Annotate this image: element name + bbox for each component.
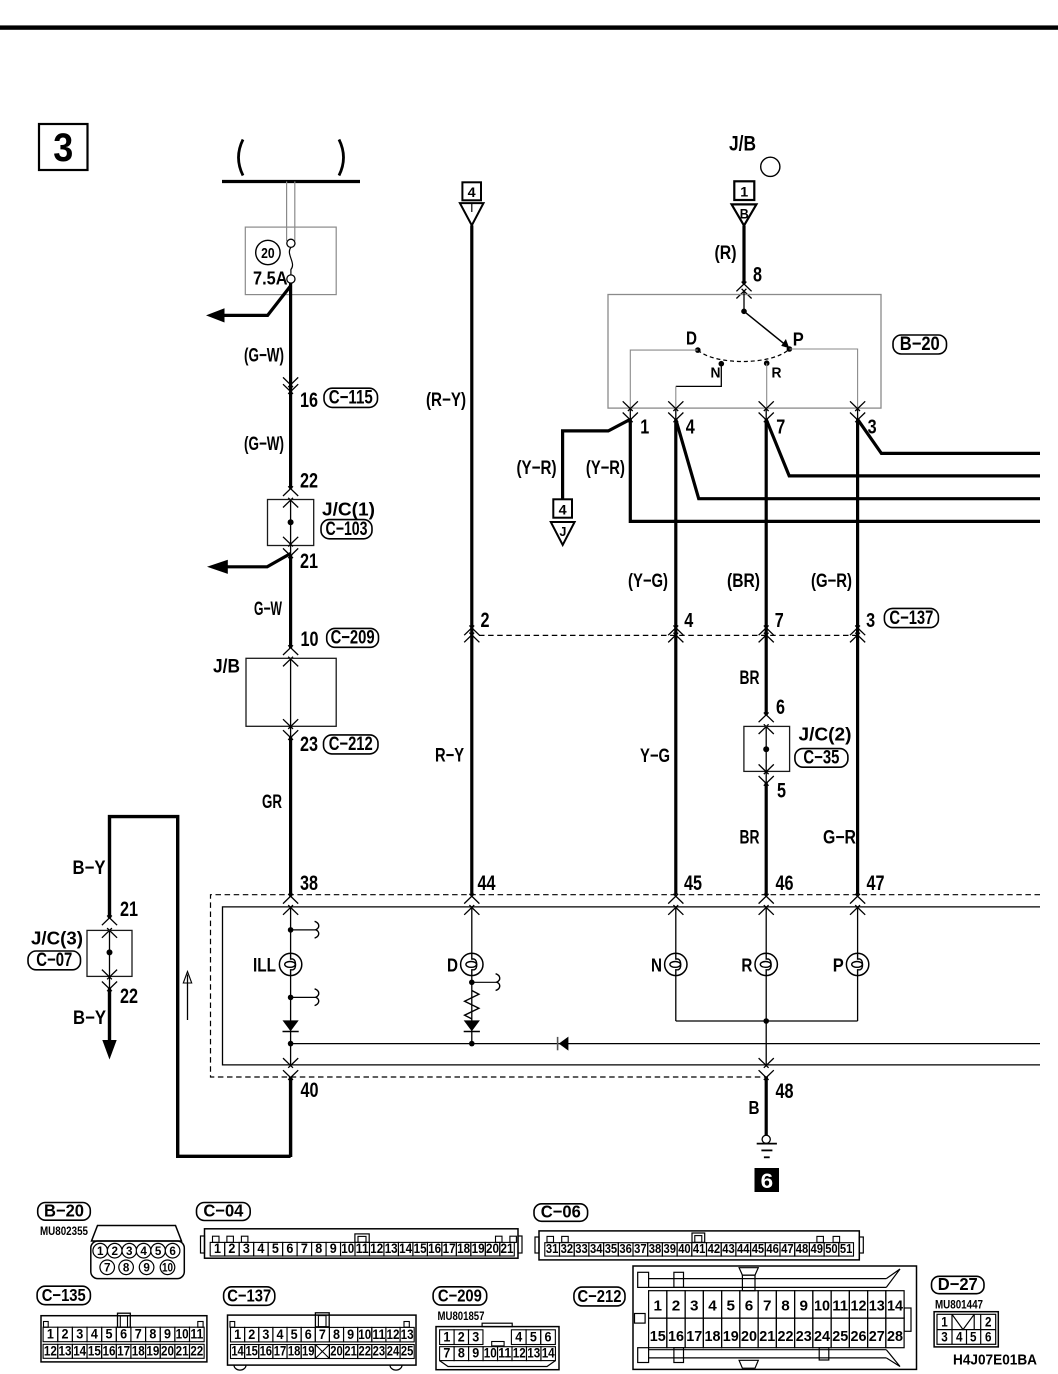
svg-text:23: 23 (796, 1328, 812, 1345)
junction connector J/C(1) box (268, 500, 314, 546)
svg-text:2: 2 (458, 1330, 465, 1345)
contact N dot (719, 361, 725, 367)
svg-text:10: 10 (484, 1346, 497, 1361)
wire BR from pin 7 (765, 419, 768, 715)
svg-text:1: 1 (234, 1327, 241, 1342)
svg-text:27: 27 (869, 1328, 885, 1345)
svg-text:8: 8 (333, 1327, 340, 1342)
page number 3 box (39, 124, 88, 170)
svg-text:4: 4 (684, 610, 694, 632)
svg-text:17: 17 (443, 1241, 456, 1256)
svg-text:6: 6 (545, 1330, 552, 1345)
svg-text:5: 5 (155, 1244, 162, 1258)
C-06 connector drawing (539, 1231, 859, 1260)
svg-text:7.5A: 7.5A (253, 268, 288, 289)
svg-text:25: 25 (832, 1328, 848, 1345)
svg-text:(Y−G): (Y−G) (628, 571, 668, 592)
svg-text:10: 10 (176, 1327, 189, 1342)
svg-text:14: 14 (887, 1298, 904, 1315)
cluster pin 45 entry chevrons (668, 894, 683, 904)
svg-text:17: 17 (274, 1344, 287, 1359)
svg-text:5: 5 (970, 1329, 977, 1344)
svg-text:H4J07E01BA: H4J07E01BA (953, 1352, 1037, 1369)
diode on common line (557, 1037, 559, 1050)
wire branch pin 3 to right (next page) (858, 419, 1040, 453)
svg-text:5: 5 (726, 1298, 735, 1315)
svg-text:21: 21 (120, 898, 138, 921)
ground symbol (762, 1135, 770, 1143)
wire B to ground (765, 1077, 768, 1135)
C-137 pin cells 14-25 with keyway (231, 1345, 245, 1359)
svg-text:17: 17 (117, 1343, 130, 1358)
C-212 bottom rails and tabs (649, 1349, 887, 1351)
ground wire from lamps (765, 1021, 767, 1065)
wire from pin 1 down and right (to next page) (630, 419, 1040, 521)
ILL upper tap dot and brace (288, 927, 294, 933)
wire from pin 40 down (289, 1077, 292, 1157)
svg-text:37: 37 (634, 1241, 647, 1256)
svg-text:ILL: ILL (253, 956, 276, 977)
svg-text:5: 5 (777, 780, 786, 803)
svg-text:20: 20 (330, 1344, 343, 1359)
svg-text:R: R (741, 955, 752, 976)
chevrons entering J/C(2) (759, 713, 774, 723)
svg-text:8: 8 (753, 264, 762, 287)
svg-text:28: 28 (887, 1328, 903, 1345)
svg-text:10: 10 (358, 1327, 371, 1342)
B-20 pin circles (93, 1243, 108, 1258)
svg-text:9: 9 (330, 1241, 337, 1256)
svg-text:3: 3 (126, 1244, 133, 1258)
svg-text:5: 5 (530, 1330, 537, 1345)
svg-text:5: 5 (272, 1241, 279, 1256)
D lamp (461, 953, 483, 975)
svg-text:3: 3 (690, 1298, 699, 1315)
wire through J/B (290, 659, 292, 737)
svg-text:16: 16 (300, 389, 318, 412)
connector label C-137 (inline) (884, 608, 938, 627)
svg-text:13: 13 (401, 1327, 414, 1342)
switch common dot (741, 309, 747, 315)
ILL diode (283, 1020, 299, 1031)
svg-text:1: 1 (443, 1330, 450, 1345)
svg-text:46: 46 (766, 1241, 779, 1256)
N-R-P common connector line (676, 1020, 858, 1022)
wire (R) down to B-20 (742, 226, 745, 284)
svg-text:B−20: B−20 (900, 334, 940, 355)
battery bus bar with parentheses (239, 140, 244, 176)
svg-text:21: 21 (344, 1344, 357, 1359)
svg-text:C−209: C−209 (331, 628, 375, 649)
svg-text:6: 6 (169, 1244, 176, 1258)
C-209 pin cells 7-14 (440, 1347, 454, 1361)
ground reference 6 (inverted) (755, 1168, 780, 1192)
cluster pin 44 entry chevrons (464, 894, 479, 904)
svg-text:1: 1 (941, 1315, 948, 1330)
contact D dot (695, 347, 701, 353)
svg-text:C−04: C−04 (203, 1201, 243, 1221)
svg-text:17: 17 (686, 1328, 702, 1345)
junction dot in J/C(2) (763, 746, 769, 752)
svg-text:13: 13 (869, 1298, 885, 1315)
svg-text:20: 20 (486, 1241, 499, 1256)
C-135 pin cells 1-11 (43, 1327, 58, 1342)
svg-text:4: 4 (956, 1329, 963, 1344)
C-137 pin 4 chevrons (668, 626, 683, 636)
cluster pin 46 entry chevrons (759, 894, 774, 904)
wire through J/C(1) (290, 500, 292, 555)
connector label D-27 (932, 1276, 985, 1293)
wire G-W to J/B (289, 555, 292, 648)
svg-text:12: 12 (513, 1346, 526, 1361)
B-20 connector face drawing (92, 1226, 182, 1242)
svg-text:7: 7 (104, 1260, 111, 1274)
svg-text:11: 11 (190, 1327, 203, 1342)
svg-text:42: 42 (708, 1241, 721, 1256)
svg-text:Y−G: Y−G (640, 746, 670, 767)
svg-text:48: 48 (796, 1241, 809, 1256)
svg-text:C−212: C−212 (329, 734, 373, 755)
internal line from D to pin 1 (630, 350, 698, 408)
svg-text:B: B (740, 207, 749, 222)
svg-text:19: 19 (723, 1328, 739, 1345)
svg-text:3: 3 (76, 1327, 83, 1342)
svg-text:45: 45 (752, 1241, 765, 1256)
svg-text:1: 1 (740, 184, 748, 200)
svg-text:2: 2 (111, 1244, 118, 1258)
svg-text:N: N (711, 366, 721, 382)
svg-text:8: 8 (458, 1346, 465, 1361)
svg-text:18: 18 (288, 1344, 301, 1359)
connector label C-135 (37, 1286, 90, 1305)
svg-text:8: 8 (781, 1298, 790, 1315)
internal line from R to pin 7 (766, 363, 768, 408)
svg-text:6: 6 (985, 1329, 992, 1344)
svg-text:C−103: C−103 (326, 519, 368, 540)
C-06 pin cells 31-51 (545, 1243, 560, 1256)
chevrons entering J/C(3) (102, 916, 117, 926)
C-212 top rails and tabs (649, 1278, 887, 1280)
chevrons entering J/B (C-209 pin 10) (283, 645, 298, 655)
cluster pin 40 exit chevrons (283, 1058, 298, 1068)
svg-text:4: 4 (708, 1298, 717, 1315)
C-137 pin 3 chevrons (850, 626, 865, 636)
svg-text:16: 16 (668, 1328, 684, 1345)
svg-text:C−212: C−212 (577, 1286, 621, 1306)
svg-text:6: 6 (120, 1327, 127, 1342)
svg-text:14: 14 (231, 1344, 244, 1359)
svg-text:21: 21 (176, 1343, 189, 1358)
connector label B-20 (893, 335, 947, 354)
svg-text:(R−Y): (R−Y) (426, 390, 466, 411)
inter-page connector 4 (top) box (462, 182, 481, 200)
svg-text:22: 22 (120, 985, 138, 1008)
svg-text:2: 2 (248, 1327, 255, 1342)
svg-text:14: 14 (73, 1343, 86, 1358)
svg-text:10: 10 (814, 1298, 830, 1315)
P lamp wire (857, 907, 859, 1021)
svg-text:2: 2 (672, 1298, 681, 1315)
svg-text:7: 7 (443, 1346, 450, 1361)
chevrons leaving J/B (C-212 pin 23) (283, 719, 298, 729)
ILL lamp wire (290, 907, 292, 1065)
svg-text:1: 1 (214, 1241, 221, 1256)
svg-text:2: 2 (228, 1241, 235, 1256)
svg-text:BR: BR (740, 828, 760, 849)
svg-text:22: 22 (300, 470, 318, 493)
C-212 connector drawing outer (633, 1266, 917, 1369)
wire branch pin 7 to right (next page) (766, 419, 1040, 476)
svg-text:16: 16 (260, 1344, 273, 1359)
svg-text:23: 23 (373, 1344, 386, 1359)
junction dot in J/C(3) (107, 949, 113, 955)
svg-text:24: 24 (387, 1344, 400, 1359)
D-27 connector drawing (934, 1312, 998, 1347)
svg-text:34: 34 (590, 1241, 603, 1256)
wire branch from pin 1 to connector 4/J (563, 419, 631, 499)
svg-text:6: 6 (286, 1241, 293, 1256)
svg-text:22: 22 (190, 1343, 203, 1358)
svg-text:C−07: C−07 (36, 950, 72, 971)
svg-text:2: 2 (985, 1315, 992, 1330)
svg-text:12: 12 (370, 1241, 383, 1256)
wire B-Y to arrow (108, 989, 111, 1043)
svg-text:9: 9 (164, 1327, 171, 1342)
svg-text:41: 41 (693, 1241, 706, 1256)
svg-text:11: 11 (356, 1241, 369, 1256)
svg-text:(Y−R): (Y−R) (517, 458, 557, 479)
connector label C-103 (321, 520, 372, 539)
C-137 connector drawing (228, 1315, 417, 1365)
C-135 pin cells 12-22 (43, 1344, 58, 1358)
N lamp wire (675, 907, 677, 1021)
svg-text:11: 11 (372, 1327, 385, 1342)
chevrons at C-137 crossing pin 2 (464, 626, 479, 636)
svg-text:5: 5 (291, 1327, 298, 1342)
svg-text:14: 14 (542, 1346, 555, 1361)
svg-text:MU802355: MU802355 (40, 1226, 89, 1238)
svg-text:39: 39 (664, 1241, 677, 1256)
contact P dot (787, 346, 793, 352)
svg-text:12: 12 (44, 1343, 57, 1358)
R lamp (755, 953, 777, 975)
chevrons entering J/C(1) (283, 486, 298, 496)
svg-text:7: 7 (319, 1327, 326, 1342)
connector label B-20 (bottom) (38, 1203, 91, 1221)
flow direction arrow (up) (187, 975, 189, 1021)
svg-text:2: 2 (62, 1327, 69, 1342)
svg-text:31: 31 (546, 1241, 559, 1256)
svg-text:12: 12 (850, 1298, 866, 1315)
ILL output junction dot (288, 1041, 294, 1047)
svg-text:22: 22 (777, 1328, 793, 1345)
svg-text:9: 9 (799, 1298, 808, 1315)
svg-text:25: 25 (401, 1344, 414, 1359)
svg-text:47: 47 (781, 1241, 794, 1256)
svg-text:38: 38 (300, 872, 318, 895)
svg-text:(G−W): (G−W) (244, 346, 284, 367)
svg-text:J/B: J/B (213, 657, 240, 678)
svg-text:9: 9 (472, 1346, 479, 1361)
svg-text:4: 4 (559, 501, 567, 517)
svg-text:1: 1 (97, 1244, 104, 1258)
wire G-R from pin 3 (856, 419, 859, 894)
svg-text:(Y−R): (Y−R) (586, 458, 625, 479)
svg-text:MU801447: MU801447 (935, 1300, 983, 1312)
cluster pin 38 entry chevrons (283, 894, 298, 904)
svg-text:21: 21 (759, 1328, 775, 1345)
connector label C-06 (534, 1204, 588, 1222)
junction block J/B box (246, 658, 336, 726)
C-04 connector drawing (201, 1236, 205, 1253)
svg-text:18: 18 (704, 1328, 720, 1345)
svg-text:19: 19 (472, 1241, 485, 1256)
svg-text:C−115: C−115 (329, 388, 373, 409)
svg-text:B−20: B−20 (44, 1200, 84, 1220)
svg-text:(R): (R) (715, 243, 737, 264)
connector label C-212 (inline) (324, 735, 379, 754)
svg-text:6: 6 (745, 1298, 754, 1315)
C-137 pin 7 chevrons (759, 626, 774, 636)
D tap dot and brace (469, 980, 475, 986)
wire BR to cluster pin 46 (765, 782, 768, 895)
svg-text:7: 7 (776, 417, 785, 439)
svg-text:16: 16 (428, 1241, 441, 1256)
svg-text:R: R (772, 366, 782, 382)
fuse holder lead-in double lines (286, 182, 288, 242)
svg-text:4: 4 (91, 1327, 98, 1342)
svg-text:16: 16 (102, 1343, 115, 1358)
svg-text:BR: BR (740, 668, 760, 689)
svg-text:7: 7 (301, 1241, 308, 1256)
svg-text:N: N (651, 955, 662, 976)
internal line from P to pin 3 (789, 349, 857, 408)
chevrons entering B-20 pin 8 (736, 282, 751, 292)
branch arrow to other circuits (top) (224, 286, 291, 316)
svg-text:3: 3 (53, 126, 73, 170)
junction dot below R (763, 1018, 769, 1024)
svg-text:D−27: D−27 (938, 1274, 978, 1294)
svg-text:R−Y: R−Y (435, 746, 464, 767)
svg-text:36: 36 (619, 1241, 632, 1256)
svg-text:44: 44 (478, 872, 496, 895)
fuse element symbol (287, 239, 295, 247)
svg-text:10: 10 (341, 1241, 354, 1256)
svg-text:J/C(2): J/C(2) (799, 725, 852, 745)
connector label C-35 (795, 749, 848, 768)
svg-text:G−W: G−W (254, 599, 282, 620)
svg-text:4: 4 (257, 1241, 264, 1256)
svg-text:(G−W): (G−W) (244, 434, 284, 455)
svg-text:6: 6 (305, 1327, 312, 1342)
wire into switch (743, 292, 745, 311)
svg-text:B−Y: B−Y (73, 858, 106, 879)
svg-text:2: 2 (481, 609, 490, 632)
svg-text:(G−R): (G−R) (811, 571, 852, 592)
svg-text:10: 10 (301, 628, 319, 651)
B-20 pin 3 chevrons (857, 408, 859, 419)
svg-text:10: 10 (162, 1260, 173, 1274)
svg-text:43: 43 (722, 1241, 735, 1256)
svg-text:11: 11 (832, 1298, 848, 1315)
branch arrow to other circuits (at 21) (228, 554, 291, 567)
svg-text:3: 3 (243, 1241, 250, 1256)
svg-text:20: 20 (161, 1343, 174, 1358)
svg-text:P: P (793, 329, 804, 350)
svg-text:12: 12 (386, 1327, 399, 1342)
svg-text:23: 23 (300, 733, 318, 756)
C-135 connector drawing (41, 1316, 207, 1362)
C-209 pin cells 1-3 and 4-6 (440, 1330, 454, 1345)
junction connector J/C(2) box (744, 726, 790, 771)
svg-text:4: 4 (468, 184, 476, 200)
C-212 pin grid 15-28 (649, 1318, 667, 1348)
svg-text:11: 11 (498, 1346, 511, 1361)
svg-text:50: 50 (825, 1241, 838, 1256)
junction connector J/C(3) box (87, 930, 132, 976)
svg-text:18: 18 (132, 1343, 145, 1358)
svg-text:8: 8 (149, 1327, 156, 1342)
top rule bar (0, 25, 1058, 29)
svg-text:15: 15 (88, 1343, 101, 1358)
wire B-Y loop (pin 40 return path) (110, 817, 291, 1157)
svg-text:49: 49 (811, 1241, 824, 1256)
connector label C-212 (bottom) (574, 1287, 625, 1306)
chevrons leaving J/C(2) (759, 764, 774, 774)
svg-text:3: 3 (262, 1327, 269, 1342)
triangle B (732, 204, 757, 225)
svg-text:7: 7 (763, 1298, 772, 1315)
chevrons leaving J/C(1) (283, 537, 298, 547)
C-209 connector drawing (436, 1327, 559, 1370)
svg-text:51: 51 (840, 1241, 853, 1256)
internal line from N to pin 4 (676, 364, 722, 387)
option circle (761, 157, 780, 176)
combination meter dashed outline (211, 895, 1041, 1077)
svg-text:1: 1 (640, 417, 649, 439)
svg-text:B−Y: B−Y (73, 1008, 106, 1029)
svg-text:9: 9 (143, 1260, 150, 1274)
svg-text:4: 4 (140, 1244, 147, 1258)
B-20 pin 1 chevrons (629, 408, 631, 419)
connector label C-137 (bottom) (224, 1287, 275, 1306)
D lamp wire (471, 907, 473, 1044)
wire GR down to cluster pin 38 (289, 737, 292, 896)
svg-text:3: 3 (941, 1329, 948, 1344)
svg-text:7: 7 (775, 610, 784, 632)
connector label C-04 (197, 1203, 251, 1221)
svg-text:13: 13 (59, 1343, 72, 1358)
svg-text:4: 4 (276, 1327, 283, 1342)
svg-text:C−137: C−137 (889, 608, 933, 629)
connector label C-115 (324, 388, 378, 407)
svg-text:8: 8 (123, 1260, 130, 1274)
svg-text:C−209: C−209 (438, 1285, 482, 1305)
wire branch pin 4 to right (next page) (676, 419, 1040, 498)
svg-text:J/C(1): J/C(1) (322, 500, 375, 520)
D-27 keyway V (952, 1314, 974, 1329)
R lamp wire (765, 907, 767, 1021)
C-209 bottom trapezoid (440, 1361, 556, 1367)
svg-text:15: 15 (414, 1241, 427, 1256)
svg-text:13: 13 (527, 1346, 540, 1361)
cluster pin 48 exit chevrons (759, 1058, 774, 1068)
svg-text:18: 18 (457, 1241, 470, 1256)
inter-page connector 1 box (734, 181, 754, 200)
svg-text:20: 20 (741, 1328, 757, 1345)
connector label C-209 (inline) (327, 628, 379, 647)
svg-text:9: 9 (347, 1327, 354, 1342)
